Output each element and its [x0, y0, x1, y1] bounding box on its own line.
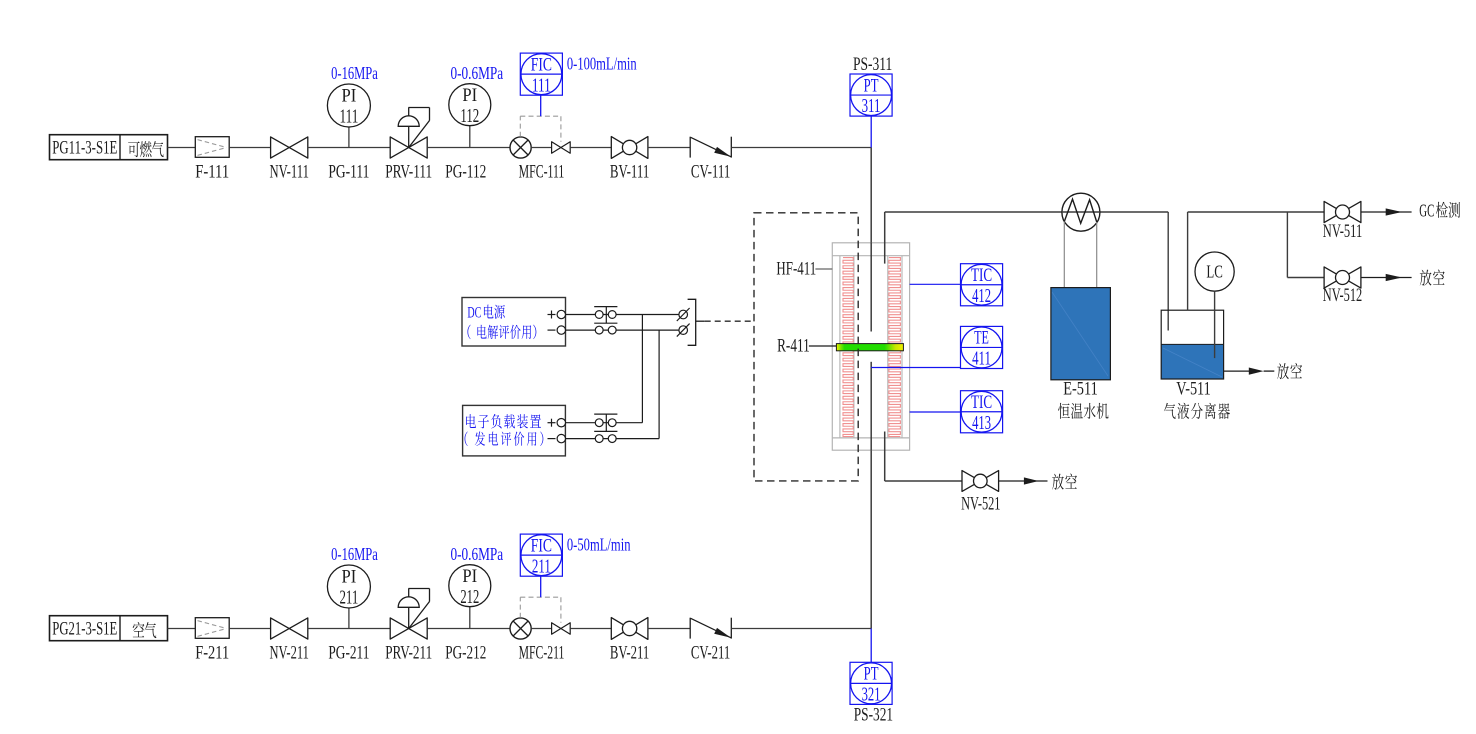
- temperature element TE 411: [961, 326, 1003, 369]
- check valve CV-211: [690, 618, 731, 664]
- furnace left heater column walls: [840, 256, 854, 438]
- pipe from source to filter: [168, 147, 196, 149]
- separator gas outlet tube: [1187, 212, 1189, 310]
- svg-text:LC: LC: [1206, 262, 1223, 282]
- svg-text:BV-211: BV-211: [610, 644, 649, 664]
- svg-text:DC: DC: [467, 305, 481, 322]
- DC switch contacts: [594, 307, 617, 334]
- pressure gauge PI 112 (PG-112): [445, 84, 491, 183]
- drain vent label: [1277, 363, 1302, 379]
- svg-text:PG-212: PG-212: [445, 644, 486, 664]
- needle valve NV-512: [1323, 267, 1362, 306]
- pressure reducing valve PRV-111: [385, 108, 432, 183]
- svg-text:V-511: V-511: [1176, 380, 1211, 400]
- vent tube bottom: [885, 432, 962, 482]
- electrolysis cell R-411: [836, 344, 903, 351]
- pipe PRV to MFC: [427, 147, 510, 149]
- svg-text:411: 411: [972, 349, 991, 370]
- DC + wire: [566, 314, 684, 316]
- pipe MFC to control valve: [531, 628, 551, 630]
- svg-text:F-111: F-111: [195, 163, 229, 183]
- MFC control valve: [552, 142, 571, 153]
- load terminal circles and polarity: [548, 419, 566, 443]
- separator V-511 vessel: [1161, 310, 1223, 379]
- vent line with arrow (NV-512): [1361, 274, 1412, 281]
- svg-text:PI: PI: [462, 85, 477, 106]
- fuel riser inside furnace: [870, 242, 872, 331]
- mass flow controller MFC-111: [510, 137, 564, 183]
- MFC control link dashed: [520, 597, 561, 623]
- source label box PG21-3-S1E: [50, 616, 168, 641]
- svg-text:TIC: TIC: [971, 392, 992, 413]
- svg-text:PG11-3-S1E: PG11-3-S1E: [52, 138, 117, 158]
- pipe check valve to riser: [731, 628, 871, 630]
- DC - wire: [566, 329, 684, 331]
- load switch contacts: [594, 414, 617, 442]
- pressure transmitter PT 311 connector: [870, 116, 872, 147]
- terminal bracket: [688, 299, 705, 345]
- label R-411 with leader: [777, 337, 836, 357]
- pipe MFC to control valve: [531, 147, 551, 149]
- leader to TIC 413: [910, 411, 961, 413]
- mass flow controller MFC-211: [510, 618, 564, 664]
- pipe from source to filter: [168, 628, 196, 630]
- pressure gauge PI 212 (PG-212): [445, 565, 491, 664]
- product line to condenser: [885, 211, 1168, 213]
- svg-text:PT: PT: [864, 75, 879, 96]
- svg-text:0-0.6MPa: 0-0.6MPa: [450, 63, 503, 83]
- GC line with arrow: [1361, 208, 1412, 215]
- needle valve NV-511: [1323, 201, 1362, 242]
- pipe control valve to ball valve: [570, 628, 611, 630]
- svg-text:CV-111: CV-111: [691, 163, 730, 183]
- dashed link to cell enclosure: [705, 320, 754, 322]
- svg-text:PS-311: PS-311: [853, 55, 892, 75]
- svg-text:PT: PT: [864, 664, 879, 685]
- level controller LC: [1195, 252, 1234, 358]
- pressure gauge PI 211 (PG-211): [327, 565, 370, 664]
- svg-text:TIC: TIC: [971, 265, 992, 286]
- svg-text:PS-321: PS-321: [854, 706, 893, 726]
- svg-text:NV-211: NV-211: [270, 644, 309, 664]
- pressure transmitter PT 321 connector: [870, 629, 872, 663]
- load + riser wire: [641, 315, 643, 423]
- pipe filter to needle valve: [229, 628, 270, 630]
- pipe needle valve to PRV: [308, 147, 390, 149]
- svg-text:PRV-211: PRV-211: [385, 644, 432, 664]
- svg-text:413: 413: [972, 413, 991, 434]
- svg-text:0-16MPa: 0-16MPa: [331, 63, 378, 83]
- temperature controller TIC 412: [961, 264, 1003, 307]
- left heater element coil: [843, 258, 853, 437]
- air riser inside furnace: [870, 362, 872, 451]
- svg-text:311: 311: [862, 96, 881, 117]
- svg-text:TE: TE: [974, 328, 989, 349]
- needle valve NV-211: [270, 618, 309, 664]
- pipe PRV to MFC: [427, 628, 510, 630]
- svg-text:MFC-111: MFC-111: [519, 163, 565, 183]
- dashed enclosure box: [754, 213, 858, 481]
- separator drain with arrow: [1224, 368, 1275, 375]
- svg-text:MFC-211: MFC-211: [519, 644, 565, 664]
- svg-text:NV-511: NV-511: [1323, 222, 1362, 242]
- furnace right heater column walls: [888, 256, 902, 438]
- MFC control link dashed: [520, 116, 561, 142]
- svg-text:PI: PI: [342, 567, 357, 588]
- pipe ball valve to check valve: [648, 147, 690, 149]
- svg-text:PG-211: PG-211: [328, 644, 369, 664]
- pressure gauge PI 111 (PG-111): [327, 84, 370, 183]
- load + wire: [565, 422, 642, 424]
- branch drop to NV-512: [1287, 212, 1324, 278]
- pipe needle valve to PRV: [308, 628, 390, 630]
- svg-text:R-411: R-411: [777, 337, 810, 357]
- load - wire: [565, 438, 659, 440]
- svg-text:412: 412: [972, 286, 991, 307]
- svg-text:E-511: E-511: [1063, 380, 1098, 400]
- air riser wire up into furnace: [870, 362, 872, 629]
- vent label (NV-512): [1420, 269, 1445, 285]
- svg-text:321: 321: [862, 684, 881, 705]
- flow controller FIC 211: [520, 534, 562, 597]
- svg-text:PRV-111: PRV-111: [385, 163, 432, 183]
- vent line with arrow (NV-521): [999, 477, 1048, 484]
- MFC control valve: [552, 623, 571, 634]
- label chiller chinese: [1058, 403, 1108, 419]
- svg-text:CV-211: CV-211: [691, 644, 730, 664]
- pipe ball valve to check valve: [648, 628, 690, 630]
- chiller E-511: [1051, 288, 1111, 380]
- svg-text:HF-411: HF-411: [776, 260, 816, 280]
- svg-text:0-16MPa: 0-16MPa: [331, 544, 378, 564]
- flow controller FIC 111: [520, 53, 562, 116]
- filter F-111: [195, 137, 229, 183]
- svg-text:111: 111: [339, 107, 358, 128]
- needle valve NV-521: [961, 471, 1000, 515]
- svg-text:112: 112: [460, 106, 479, 127]
- separator inlet drop tube: [1167, 212, 1169, 331]
- temperature controller TIC 413: [961, 391, 1003, 434]
- product outlet tube: [884, 212, 886, 264]
- svg-text:111: 111: [532, 75, 551, 96]
- svg-text:GC: GC: [1419, 201, 1434, 221]
- label HF-411 with leader: [776, 260, 832, 280]
- load - riser wire: [658, 330, 660, 439]
- ball valve BV-111: [610, 137, 649, 183]
- svg-text:0-0.6MPa: 0-0.6MPa: [450, 544, 503, 564]
- svg-text:NV-512: NV-512: [1323, 286, 1362, 306]
- furnace HF-411 body: [832, 243, 909, 450]
- pressure transmitter PT 311: [850, 74, 892, 117]
- svg-text:NV-111: NV-111: [270, 163, 309, 183]
- cell terminal - (slashed circle): [677, 324, 690, 337]
- condenser coil circle: [1062, 193, 1100, 287]
- DC terminal circles and polarity: [548, 310, 566, 334]
- leader to TIC 412: [910, 283, 961, 285]
- svg-text:NV-521: NV-521: [961, 494, 1000, 514]
- ball valve BV-211: [610, 618, 649, 664]
- pipe check valve to riser: [731, 147, 871, 149]
- cell terminal + (slashed circle): [677, 308, 690, 321]
- pressure reducing valve PRV-211: [385, 589, 432, 664]
- svg-text:PG-112: PG-112: [445, 163, 486, 183]
- svg-text:BV-111: BV-111: [610, 163, 649, 183]
- pressure transmitter PT 321: [850, 662, 892, 705]
- needle valve NV-111: [270, 137, 309, 183]
- fuel riser wire down into furnace: [870, 148, 872, 332]
- filter F-211: [195, 618, 229, 664]
- pipe control valve to ball valve: [570, 147, 611, 149]
- DC power supply box: [462, 298, 566, 347]
- gas line to analysis branch: [1188, 211, 1325, 213]
- source label box PG11-3-S1E: [50, 135, 168, 160]
- label separator chinese: [1164, 403, 1230, 419]
- svg-text:0-100mL/min: 0-100mL/min: [567, 53, 637, 73]
- electronic load box: [463, 405, 566, 456]
- leader to TE 411: [871, 367, 960, 369]
- svg-text:211: 211: [532, 556, 551, 577]
- svg-text:PI: PI: [342, 86, 357, 107]
- svg-text:PG-111: PG-111: [328, 163, 369, 183]
- svg-text:212: 212: [460, 587, 479, 608]
- svg-text:PG21-3-S1E: PG21-3-S1E: [52, 619, 117, 639]
- svg-text:FIC: FIC: [531, 535, 552, 556]
- svg-text:PI: PI: [462, 566, 477, 587]
- svg-text:0-50mL/min: 0-50mL/min: [567, 534, 631, 554]
- right heater element coil: [889, 258, 901, 437]
- GC label: [1419, 201, 1460, 221]
- vent label (NV-521): [1052, 473, 1077, 489]
- svg-text:FIC: FIC: [531, 54, 552, 75]
- pipe filter to needle valve: [229, 147, 270, 149]
- svg-text:211: 211: [339, 588, 358, 609]
- svg-text:F-211: F-211: [195, 644, 229, 664]
- check valve CV-111: [690, 137, 731, 183]
